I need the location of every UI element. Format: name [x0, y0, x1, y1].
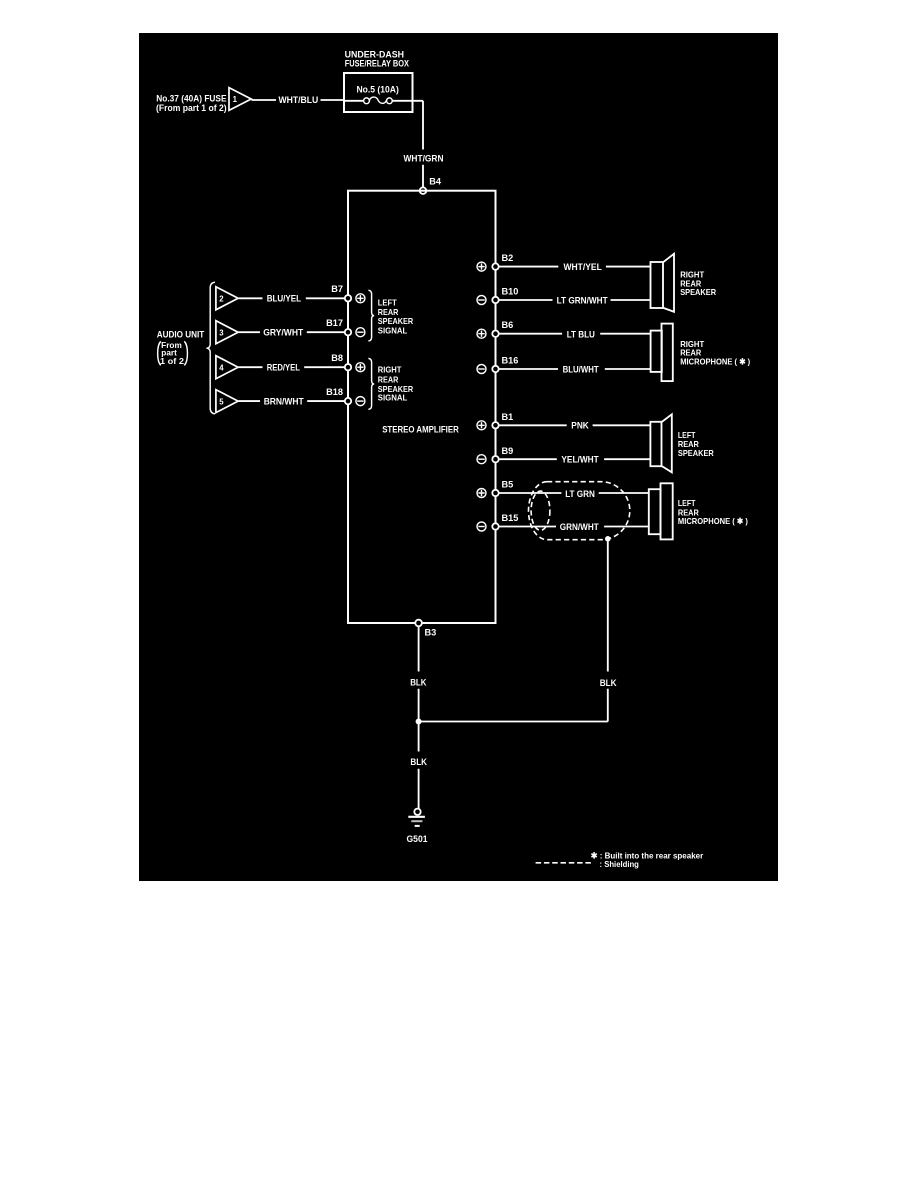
svg-text:B2: B2: [502, 253, 514, 263]
connector 5: [216, 390, 238, 413]
wire YEL/WHT: [499, 455, 650, 465]
svg-text:SIGNAL: SIGNAL: [378, 393, 408, 403]
svg-text:STEREO AMPLIFIER: STEREO AMPLIFIER: [382, 425, 459, 435]
terminal B16 (-): [477, 355, 518, 373]
terminal B18 (-): [326, 387, 365, 406]
svg-text:4: 4: [219, 363, 224, 372]
terminal B2 (+): [477, 253, 513, 271]
svg-text:AUDIO UNIT: AUDIO UNIT: [157, 329, 205, 339]
wire GRY/WHT: [239, 327, 349, 337]
wire LT GRN/WHT: [499, 295, 651, 305]
connector 1 (No.37 40A fuse feed): [156, 88, 251, 114]
wire WHT/YEL: [499, 262, 651, 272]
svg-text:B9: B9: [502, 446, 514, 456]
left rear speaker signal bracket: [368, 290, 413, 341]
svg-text:BLK: BLK: [410, 677, 427, 687]
svg-text:B18: B18: [326, 387, 343, 397]
svg-text:LT GRN: LT GRN: [565, 489, 595, 499]
microphone right rear: [651, 324, 751, 382]
terminal B5 (+): [477, 480, 513, 498]
svg-text:RED/YEL: RED/YEL: [267, 362, 301, 372]
diagram background panel: [139, 33, 778, 881]
svg-text:FUSE/RELAY BOX: FUSE/RELAY BOX: [345, 59, 409, 69]
wire GRN/WHT: [499, 522, 649, 532]
svg-text:G501: G501: [407, 834, 428, 844]
stereo amplifier box: [348, 191, 496, 623]
wire LT GRN: [499, 489, 649, 499]
svg-text:GRN/WHT: GRN/WHT: [560, 522, 599, 532]
svg-text:B15: B15: [502, 513, 519, 523]
terminal B17 (-): [326, 318, 365, 337]
svg-text:1: 1: [233, 95, 238, 104]
node B3: [415, 620, 436, 638]
wire PNK: [499, 420, 650, 430]
wire BLU/WHT: [499, 365, 651, 375]
wire BLU/YEL: [239, 294, 349, 304]
wire BLK (shield drain): [600, 542, 617, 722]
terminal B10 (-): [477, 287, 518, 305]
svg-text:: Shielding: : Shielding: [600, 859, 639, 869]
terminal B7 (+): [331, 284, 365, 303]
svg-text:5: 5: [219, 397, 224, 406]
microphone left rear: [649, 483, 748, 539]
wire RED/YEL: [239, 362, 349, 372]
under-dash fuse/relay box: [344, 50, 413, 112]
svg-text:B3: B3: [425, 628, 437, 638]
svg-text:BLK: BLK: [600, 678, 617, 688]
wire BLK from B3: [410, 626, 427, 721]
svg-text:B4: B4: [429, 176, 442, 186]
svg-text:(From part 1 of 2): (From part 1 of 2): [156, 103, 227, 113]
fuse No.5 (10A): [344, 85, 413, 104]
svg-text:RIGHT: RIGHT: [378, 365, 402, 375]
audio unit brace: [206, 282, 215, 414]
svg-text:WHT/BLU: WHT/BLU: [279, 95, 319, 105]
terminal B6 (+): [477, 320, 513, 338]
legend: [536, 850, 704, 869]
svg-text:2: 2: [219, 295, 224, 304]
audio unit label: [157, 329, 205, 366]
wire BRN/WHT: [239, 396, 349, 406]
svg-text:1 of 2: 1 of 2: [160, 357, 184, 366]
wire LT BLU: [499, 329, 651, 339]
svg-text:LT BLU: LT BLU: [567, 329, 596, 339]
svg-text:3: 3: [219, 328, 224, 337]
svg-text:B5: B5: [502, 480, 514, 490]
svg-text:LEFT: LEFT: [678, 498, 696, 508]
svg-text:REAR: REAR: [378, 374, 399, 384]
svg-text:B8: B8: [331, 353, 343, 363]
svg-text:WHT/YEL: WHT/YEL: [564, 262, 603, 272]
shield drain node: [605, 536, 611, 542]
wire WHT/BLU: [252, 95, 345, 105]
svg-text:SPEAKER: SPEAKER: [680, 287, 716, 297]
wire WHT/GRN: [404, 101, 444, 188]
terminal B8 (+): [331, 353, 365, 372]
svg-text:B17: B17: [326, 318, 343, 328]
ground G501: [407, 809, 428, 845]
svg-text:LT GRN/WHT: LT GRN/WHT: [557, 295, 608, 305]
junction: [416, 719, 422, 725]
connector 4: [216, 356, 238, 379]
svg-text:B7: B7: [331, 284, 343, 294]
shielding: [529, 482, 630, 540]
terminal B1 (+): [477, 412, 513, 430]
svg-text:No.5 (10A): No.5 (10A): [357, 85, 399, 95]
svg-text:part: part: [161, 348, 177, 357]
svg-text:B10: B10: [502, 287, 519, 297]
svg-text:WHT/GRN: WHT/GRN: [404, 153, 444, 163]
svg-text:PNK: PNK: [571, 420, 589, 430]
svg-text:SPEAKER: SPEAKER: [678, 448, 714, 458]
svg-text:BLU/YEL: BLU/YEL: [267, 294, 302, 304]
node B4: [420, 176, 442, 194]
svg-text:B6: B6: [502, 320, 514, 330]
svg-text:BLU/WHT: BLU/WHT: [563, 365, 599, 375]
svg-text:B1: B1: [502, 412, 514, 422]
connector 3: [216, 321, 238, 344]
terminal B9 (-): [477, 446, 513, 464]
speaker left rear: [650, 414, 713, 472]
wire BLK to ground: [410, 722, 427, 809]
svg-text:MICROPHONE ( ✱ ): MICROPHONE ( ✱ ): [678, 516, 748, 526]
svg-text:BLK: BLK: [410, 757, 427, 767]
svg-text:B16: B16: [502, 355, 519, 365]
svg-text:MICROPHONE ( ✱ ): MICROPHONE ( ✱ ): [680, 357, 750, 367]
wire junction to ground: [419, 721, 608, 723]
svg-text:YEL/WHT: YEL/WHT: [561, 455, 599, 465]
svg-text:No.37 (40A) FUSE: No.37 (40A) FUSE: [156, 94, 226, 104]
speaker right rear: [651, 254, 717, 312]
connector 2: [216, 287, 238, 310]
terminal B15 (-): [477, 513, 518, 531]
svg-text:BRN/WHT: BRN/WHT: [264, 396, 304, 406]
svg-text:GRY/WHT: GRY/WHT: [263, 327, 303, 337]
right rear speaker signal bracket: [368, 358, 413, 409]
svg-text:SIGNAL: SIGNAL: [378, 325, 408, 335]
